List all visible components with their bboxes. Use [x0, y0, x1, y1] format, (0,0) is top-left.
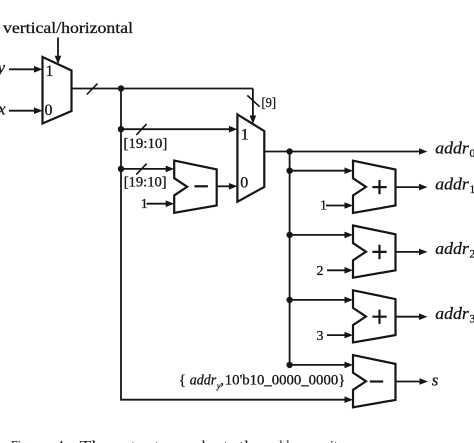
svg-text:x: x	[0, 100, 6, 119]
svg-text:addr: addr	[435, 174, 469, 193]
svg-text:0: 0	[470, 148, 474, 160]
svg-text:{: {	[179, 373, 186, 389]
svg-text:Figure: Figure	[11, 439, 42, 443]
svg-text:the: the	[239, 439, 262, 443]
svg-text:addr: addr	[435, 239, 469, 258]
svg-text:1: 1	[470, 184, 474, 196]
svg-text:s: s	[432, 370, 439, 389]
svg-text:addr: addr	[190, 373, 217, 389]
svg-text:4.: 4.	[57, 439, 68, 443]
svg-text:addr: addr	[435, 304, 469, 323]
svg-text:[9]: [9]	[262, 96, 277, 111]
svg-text:0: 0	[45, 102, 53, 119]
svg-text:unit: unit	[315, 439, 338, 443]
svg-text:y: y	[0, 58, 6, 77]
svg-text:,: ,	[220, 373, 224, 389]
svg-text:structure: structure	[125, 439, 179, 443]
svg-text:3: 3	[317, 329, 324, 344]
svg-text:addr: addr	[435, 139, 469, 158]
svg-text:vertical/horizontal: vertical/horizontal	[3, 20, 134, 37]
svg-text:1: 1	[320, 199, 327, 214]
svg-text:[19:10]: [19:10]	[124, 175, 167, 191]
svg-text:chart: chart	[194, 439, 228, 443]
svg-text:3: 3	[470, 314, 474, 326]
svg-text:adder: adder	[270, 439, 301, 443]
svg-text:1: 1	[141, 197, 148, 212]
svg-text:[19:10]: [19:10]	[123, 136, 167, 152]
svg-text:1: 1	[241, 127, 249, 144]
svg-text:10'b10_0000_0000}: 10'b10_0000_0000}	[225, 373, 345, 389]
svg-text:2: 2	[317, 264, 324, 279]
svg-text:The: The	[80, 439, 111, 443]
svg-text:0: 0	[240, 174, 248, 191]
svg-text:2: 2	[470, 249, 474, 261]
svg-text:1: 1	[46, 63, 54, 80]
